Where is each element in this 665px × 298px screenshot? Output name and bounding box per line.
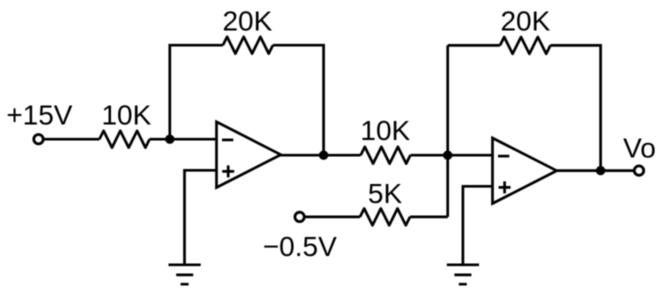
ground (stage 2) — [447, 265, 479, 284]
wire U1 non-inverting input to ground — [185, 170, 217, 264]
svg-text:−0.5V: −0.5V — [263, 231, 337, 262]
terminal Vo output — [634, 166, 643, 175]
svg-text:20K: 20K — [222, 6, 272, 37]
svg-text:10K: 10K — [360, 115, 410, 146]
wire U2 non-inverting input to ground — [463, 186, 493, 264]
wire from -0.5V terminal to 5K resistor — [304, 216, 360, 219]
wire U1 output to stage-2 resistor — [281, 154, 361, 157]
resistor 20K (feedback stage 2) — [500, 37, 550, 54]
wire input from +15V terminal — [43, 138, 99, 141]
wire node B vertical (feedback riser and drop to 5K branch) — [446, 45, 449, 217]
svg-text:5K: 5K — [368, 178, 403, 209]
wire resistor to op-amp U1 inverting input — [150, 138, 217, 141]
wire 5K resistor to node B corner — [410, 216, 448, 219]
ground (stage 1) — [169, 265, 201, 284]
node U1 output junction dot — [319, 151, 328, 160]
U2 inverting pin label - — [498, 155, 509, 158]
op-amp U1 — [217, 122, 281, 188]
U1 inverting pin label - — [222, 139, 233, 142]
terminal +15V input — [34, 135, 43, 144]
svg-text:20K: 20K — [500, 5, 550, 36]
resistor 10K (stage 2 input) — [361, 147, 411, 164]
wire feedback loop 2 (node B up, across, down to U2 output) — [448, 45, 601, 170]
resistor 10K (stage 1 input) — [99, 131, 149, 148]
node A junction dot — [165, 135, 174, 144]
op-amp U2 — [493, 138, 557, 204]
terminal -0.5V input — [295, 212, 304, 221]
svg-text:Vo: Vo — [623, 133, 656, 164]
U2 non-inverting pin label + — [499, 181, 511, 193]
wire resistor to op-amp U2 inverting input — [410, 154, 492, 157]
U1 non-inverting pin label + — [222, 165, 234, 177]
node B junction dot — [443, 151, 452, 160]
resistor 20K (feedback stage 1) — [223, 37, 273, 54]
svg-text:+15V: +15V — [6, 100, 72, 131]
wire feedback loop 1 (node A up, across, down to U1 output) — [170, 45, 324, 155]
node U2 output junction dot — [596, 166, 605, 175]
wire U2 output to Vo terminal — [557, 169, 635, 172]
resistor 5K — [360, 209, 410, 226]
svg-text:10K: 10K — [101, 100, 151, 131]
